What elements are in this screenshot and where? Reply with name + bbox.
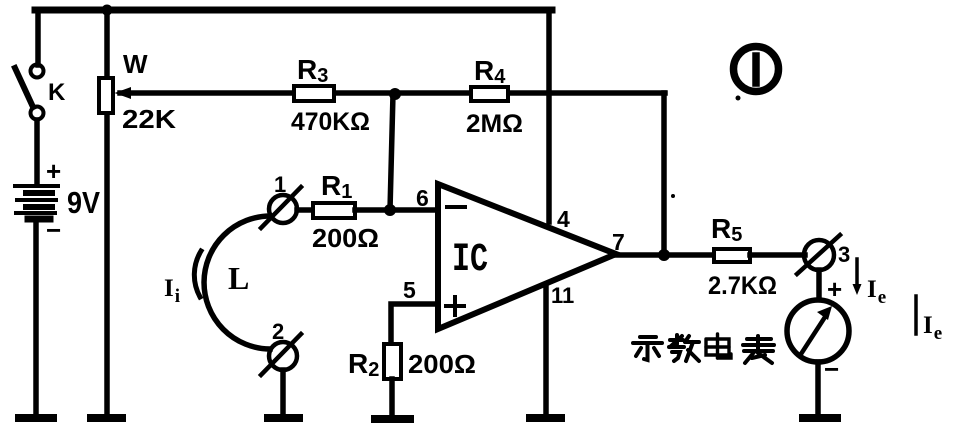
node junction output/feedback (658, 249, 670, 261)
svg-text:K: K (48, 79, 66, 106)
ground (pin 11) (530, 414, 561, 422)
current arrow Ie (down arrow) (853, 259, 862, 295)
potentiometer W (99, 78, 113, 113)
inductor terminal 2 (261, 334, 301, 375)
svg-text:2MΩ: 2MΩ (466, 110, 523, 138)
glyph 电 (706, 334, 731, 358)
ground (terminal 2) (268, 414, 299, 422)
wire terminal2 to ground (280, 370, 286, 412)
svg-text:W: W (123, 49, 148, 79)
ground (meter) (803, 414, 837, 422)
wire R1 to pin 6 (355, 207, 438, 213)
svg-text:6: 6 (416, 185, 429, 211)
svg-text:7: 7 (612, 229, 625, 255)
svg-text:22K: 22K (122, 104, 176, 134)
svg-text:200Ω: 200Ω (408, 349, 476, 379)
ground (R2) (375, 415, 410, 423)
ground (W branch) (91, 414, 122, 422)
resistor R1 (313, 203, 355, 218)
inductor terminal 1 (261, 187, 301, 228)
switch K (15, 65, 44, 120)
wire switch to battery (34, 120, 40, 184)
wire terminal1 to R1 (297, 207, 313, 213)
svg-text:2.7KΩ: 2.7KΩ (708, 272, 777, 300)
svg-text:IC: IC (452, 238, 488, 283)
wire feedback rail R3/R4 (120, 90, 665, 96)
op-amp minus input mark (447, 205, 465, 209)
wire pin 5 stub (391, 304, 438, 344)
resistor R2 (384, 344, 401, 379)
meter terminal 3 (797, 235, 840, 274)
meter M1 (787, 300, 849, 362)
wire output to R5 (616, 252, 714, 258)
wire W branch vertical (104, 10, 110, 412)
svg-text:2: 2 (272, 319, 284, 344)
node junction R1/pin6 (384, 204, 396, 216)
glyph 表 (743, 336, 774, 363)
op-amp plus input mark (446, 297, 464, 315)
inductor L arc (204, 216, 271, 349)
wire junction to inverting input (390, 94, 393, 210)
wire left drop to switch (35, 10, 41, 65)
resistor R4 (471, 87, 508, 101)
wire feedback drop to output (661, 93, 667, 255)
node junction R3/R4/R1 (389, 88, 401, 100)
speck above R5 (671, 194, 675, 198)
svg-text:L: L (228, 260, 249, 296)
op-amp U1 IC (438, 184, 616, 329)
speck near badge (736, 96, 741, 101)
current bar Ie (second) (914, 296, 918, 334)
svg-text:9V: 9V (67, 185, 100, 220)
current arrow Ii arc (194, 251, 201, 297)
resistor R3 (294, 86, 334, 101)
svg-text:470KΩ: 470KΩ (291, 108, 370, 136)
figure number badge (1) (734, 47, 779, 92)
wire battery to ground (33, 222, 39, 412)
battery B1 9V (15, 186, 58, 219)
svg-text:−: − (46, 215, 61, 245)
node junction top rail / W branch (102, 5, 113, 16)
wire R2 to ground (389, 379, 395, 413)
svg-text:4: 4 (557, 206, 570, 232)
resistor R5 (714, 249, 750, 262)
glyph 教 (669, 335, 699, 361)
svg-text:3: 3 (838, 242, 850, 267)
wire V+ rail to pin 4 (546, 10, 552, 222)
wire top rail (35, 7, 552, 14)
svg-text:+: + (46, 156, 61, 186)
ground (battery) (19, 414, 53, 422)
label 示教电表 (drawn glyphs) (633, 334, 774, 363)
wiper arrow into W (115, 87, 132, 99)
svg-text:200Ω: 200Ω (312, 223, 379, 253)
wire R5 to terminal 3 (750, 252, 805, 258)
svg-text:−: − (824, 354, 839, 384)
svg-text:5: 5 (403, 277, 416, 303)
svg-text:1: 1 (274, 172, 286, 197)
wire pin 11 to ground (543, 287, 549, 412)
wire meter to ground (815, 362, 821, 412)
wire terminal 3 to meter (816, 270, 822, 301)
svg-text:11: 11 (551, 283, 574, 308)
glyph 示 (633, 337, 662, 360)
